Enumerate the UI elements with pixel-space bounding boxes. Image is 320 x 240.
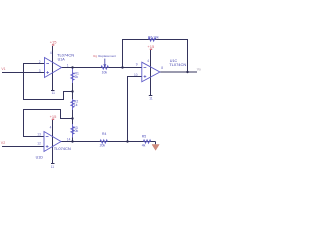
svg-text:13: 13: [37, 132, 41, 136]
svg-text:10k: 10k: [102, 71, 108, 75]
svg-text:+15: +15: [50, 40, 58, 45]
svg-text:Replacement: Replacement: [98, 54, 116, 58]
svg-text:8: 8: [161, 66, 163, 70]
svg-text:14: 14: [67, 137, 71, 141]
svg-text:11: 11: [149, 96, 153, 100]
svg-text:V2: V2: [1, 141, 5, 145]
svg-text:4: 4: [50, 126, 52, 130]
svg-text:TL074CN: TL074CN: [54, 146, 71, 151]
svg-text:9: 9: [136, 62, 138, 66]
svg-text:R5: R5: [142, 135, 146, 139]
svg-text:20k: 20k: [100, 144, 106, 148]
svg-text:R6 10k: R6 10k: [148, 36, 159, 40]
svg-text:2: 2: [39, 60, 41, 64]
svg-text:Rg: Rg: [93, 54, 97, 58]
svg-text:1k: 1k: [74, 103, 78, 107]
svg-text:4k: 4k: [142, 143, 146, 147]
svg-text:R4: R4: [102, 132, 106, 136]
svg-text:+15: +15: [147, 44, 155, 49]
svg-text:10: 10: [134, 73, 138, 77]
svg-text:2k: 2k: [75, 75, 79, 79]
svg-text:U1D: U1D: [36, 156, 44, 160]
svg-text:3: 3: [39, 69, 41, 73]
svg-text:Vo: Vo: [197, 67, 201, 71]
svg-text:U1A: U1A: [58, 58, 66, 62]
svg-text:TL074CN: TL074CN: [169, 62, 186, 67]
svg-text:4: 4: [50, 51, 52, 55]
svg-text:+15: +15: [50, 114, 58, 119]
svg-text:1: 1: [67, 64, 69, 68]
svg-text:12: 12: [37, 142, 41, 146]
svg-text:4: 4: [147, 59, 149, 63]
svg-text:10k: 10k: [73, 129, 79, 133]
svg-text:11: 11: [52, 91, 56, 95]
svg-text:V1: V1: [1, 67, 5, 71]
svg-text:11: 11: [51, 165, 55, 169]
